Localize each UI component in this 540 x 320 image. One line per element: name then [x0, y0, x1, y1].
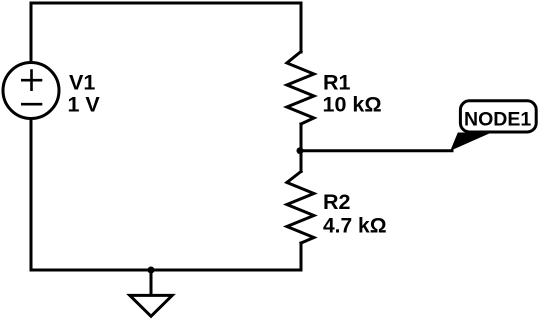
wire R2 to bottom: [300, 243, 303, 270]
svg-text:NODE1: NODE1: [464, 108, 531, 130]
node junction dot: [297, 147, 304, 154]
voltage source V1 circle: [3, 63, 59, 119]
wire right upper: [300, 3, 303, 52]
wire R1 to node: [300, 124, 303, 151]
ground symbol triangle: [130, 295, 172, 316]
NODE1 callout box: [460, 101, 536, 132]
wire top horizontal: [31, 2, 301, 5]
wire node to NODE1 tail: [301, 149, 452, 152]
svg-text:10 kΩ: 10 kΩ: [323, 93, 382, 117]
V1 plus sign: [21, 69, 42, 91]
wire bottom horizontal: [31, 269, 301, 272]
svg-text:V1: V1: [69, 70, 95, 94]
svg-text:R2: R2: [323, 190, 351, 214]
svg-text:4.7 kΩ: 4.7 kΩ: [323, 214, 387, 237]
wire left lower: [30, 120, 33, 270]
wire left upper: [30, 3, 33, 61]
svg-text:R1: R1: [323, 70, 351, 94]
ground junction dot: [148, 267, 155, 274]
resistor R2: [287, 172, 314, 244]
ground stub wire: [150, 270, 153, 294]
NODE1 callout tail: [450, 133, 491, 151]
resistor R1: [287, 52, 314, 125]
V1 minus sign: [21, 103, 42, 106]
svg-text:1 V: 1 V: [68, 92, 101, 116]
wire node to R2: [300, 151, 303, 172]
